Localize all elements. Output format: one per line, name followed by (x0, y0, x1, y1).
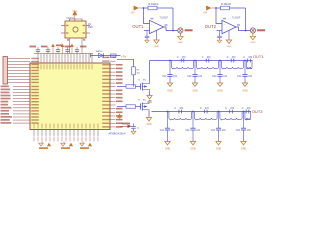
resistor label OUT2 (221, 3, 232, 6)
svg-text:GND: GND (227, 46, 232, 48)
shunt cap COUT1s1 (162, 60, 178, 83)
svg-text:C12: C12 (185, 130, 190, 132)
feedback resistor R OUT1 (144, 6, 174, 10)
op-amp power pin ground OUT2 (226, 30, 232, 48)
net label OUT3 (252, 109, 262, 114)
svg-text:GND: GND (146, 124, 151, 126)
svg-text:+5V: +5V (131, 13, 136, 15)
cap value labels (30, 44, 87, 47)
svg-text:R 10k1%: R 10k1% (221, 3, 232, 6)
feedback wires OUT2 (215, 7, 246, 31)
+5V arrows above caps (51, 44, 55, 54)
parallel inductor LOUT11 (171, 61, 193, 71)
ground below Q2 (147, 96, 153, 105)
capacitor C7 bottom right (131, 124, 140, 135)
output jack OUT2 (250, 28, 255, 33)
svg-text:GND: GND (190, 148, 196, 151)
IC1 bottom pins (34, 130, 98, 137)
shunt cap COUT1s4 (237, 60, 253, 83)
IC1 top pin names (38, 64, 93, 69)
bottom ground and power symbols (39, 143, 51, 149)
IC1 right pin stubs and labels (110, 58, 123, 128)
IC1 left pin names (31, 58, 39, 124)
ground OUT32 (190, 142, 196, 151)
svg-text:OUT1: OUT1 (132, 24, 144, 29)
svg-text:ATMEGA32U4: ATMEGA32U4 (109, 132, 127, 136)
IC1 bottom pin names (34, 124, 99, 142)
svg-text:R 10k1%: R 10k1% (149, 3, 160, 6)
net label OUT2 (205, 24, 217, 29)
svg-text:BAT54: BAT54 (96, 50, 103, 53)
resistor R5 to Q3 gate (117, 105, 141, 108)
series cap COUT32 (200, 108, 210, 114)
op-amp U OUT1 (144, 17, 168, 34)
svg-text:GND: GND (250, 42, 255, 44)
series cap COUT13 (227, 57, 237, 63)
ground OUT13 (217, 83, 223, 93)
Q2 source wire (149, 92, 151, 96)
oscillator Q1 top pin wires (70, 19, 83, 21)
shunt cap COUT3s4 (236, 111, 252, 142)
svg-text:C12: C12 (211, 130, 216, 132)
oscillator bottom pin wires (67, 38, 85, 54)
svg-text:C12: C12 (236, 130, 241, 132)
svg-text:GND: GND (241, 148, 247, 151)
svg-text:GND: GND (178, 42, 183, 44)
net label OUT1 (132, 24, 144, 29)
Q2 drain wire to filter 1 (149, 61, 151, 82)
svg-text:GND: GND (242, 90, 248, 93)
svg-text:+5V: +5V (203, 13, 208, 15)
svg-text:C12: C12 (237, 76, 242, 78)
series cap COUT31 (174, 108, 184, 114)
shunt cap COUT3s1 (160, 111, 176, 142)
power +5V flag OUT2 circuit (206, 6, 216, 11)
resistor R3 vertical (132, 67, 136, 75)
reset arrow bottom right (121, 125, 132, 128)
svg-text:GND: GND (192, 90, 198, 93)
series cap COUT12 (202, 57, 212, 63)
svg-text:GND: GND (154, 46, 159, 48)
series cap COUT34 (242, 108, 252, 114)
IC1 ATMEGA32U4 body (30, 63, 110, 130)
svg-text:C12: C12 (160, 130, 165, 132)
parallel inductor LOUT33 (220, 112, 242, 122)
svg-text:16MHZ: 16MHZ (66, 17, 74, 20)
svg-text:TL082P: TL082P (160, 17, 169, 20)
net label OUT1 (253, 54, 263, 59)
bottom pin wires to grounds (42, 142, 83, 144)
connector X1 wires to IC1 (8, 59, 31, 83)
series cap COUT11 (177, 57, 187, 63)
op-amp U OUT2 (217, 17, 241, 34)
ground OUT12 (192, 83, 198, 93)
series cap COUT14 (243, 57, 253, 63)
svg-text:C12: C12 (212, 76, 217, 78)
wire from IC1 to R3 (117, 59, 134, 67)
svg-text:C12: C12 (162, 76, 167, 78)
ground OUT11 (167, 83, 173, 93)
decoupling capacitors C group (36, 47, 40, 53)
shunt cap COUT3s3 (211, 111, 227, 142)
parallel inductor LOUT14 (246, 61, 252, 71)
Q3 drain wire to filter 2 (149, 101, 152, 102)
transistor Q2 nmos (141, 82, 150, 92)
power bus wire above IC1 (34, 53, 93, 55)
parallel inductor LOUT13 (221, 61, 243, 71)
shunt cap COUT3s2 (185, 111, 201, 142)
resistor label OUT1 (149, 3, 160, 6)
svg-text:GND: GND (216, 148, 222, 151)
ground OUT14 (242, 83, 248, 93)
resistor R4 to Q1 gate (117, 85, 141, 88)
ground OUT34 (241, 142, 247, 151)
shunt cap COUT1s2 (187, 60, 203, 83)
output wire OUT1 (164, 27, 178, 31)
parallel inductor LOUT12 (196, 61, 218, 71)
transistor Q3 nmos (141, 102, 150, 112)
power +5V flag OUT1 circuit (134, 6, 144, 11)
IC1 value text ATMEGA32U4 (109, 132, 127, 136)
oscillator Q1 body (61, 21, 90, 38)
output jack ground OUT1 (178, 33, 184, 44)
svg-text:16M: 16M (88, 27, 93, 29)
op-amp power pin ground OUT1 (154, 30, 160, 48)
feedback resistor R OUT2 (216, 6, 246, 10)
shunt cap COUT1s3 (212, 60, 228, 83)
ground OUT31 (165, 142, 171, 151)
diode label (96, 50, 103, 53)
wire to USB power chain (91, 55, 121, 57)
plus input bias OUT1 (145, 31, 150, 44)
IC1 right pin names (102, 57, 109, 128)
svg-text:GND: GND (167, 90, 173, 93)
Q3 source wire and ground (146, 112, 152, 127)
svg-text:C12: C12 (187, 76, 192, 78)
+5V arrow near right pins (117, 114, 122, 120)
oscillator name/value label (88, 24, 93, 29)
plus input bias OUT2 (217, 31, 222, 44)
series cap COUT33 (225, 108, 235, 114)
feedback wires OUT1 (143, 7, 174, 31)
svg-text:GND: GND (165, 148, 171, 151)
svg-text:+5V: +5V (121, 54, 126, 58)
output jack OUT1 (178, 28, 183, 33)
+5V net label (121, 54, 126, 58)
parallel inductor LOUT31 (169, 112, 192, 122)
svg-text:OUT3: OUT3 (252, 109, 262, 114)
output jack ground OUT2 (250, 33, 256, 44)
diode D1 (99, 53, 104, 57)
svg-text:OUT1: OUT1 (253, 54, 263, 59)
IC1 top pins (38, 54, 92, 64)
filter rail OUT1 (150, 60, 253, 62)
svg-text:GND: GND (217, 90, 223, 93)
oscillator frequency label (66, 17, 74, 20)
ground OUT33 (216, 142, 222, 151)
power +5V flag above oscillator (72, 11, 77, 22)
svg-text:TL082P: TL082P (232, 17, 241, 20)
connector X1 (3, 57, 8, 85)
output wire OUT2 (236, 27, 250, 31)
filter rail OUT3 (152, 111, 252, 113)
parallel inductor LOUT32 (194, 112, 217, 122)
fuse F1 (111, 54, 117, 57)
svg-text:OUT2: OUT2 (205, 24, 217, 29)
left net labels and wires (1, 86, 31, 124)
parallel inductor LOUT34 (245, 112, 251, 122)
